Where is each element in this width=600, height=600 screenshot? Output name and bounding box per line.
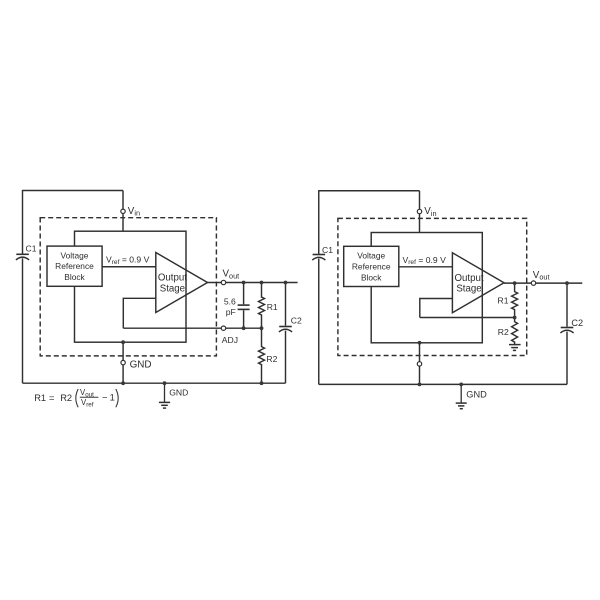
svg-text:Block: Block <box>361 272 382 282</box>
op-amp output stage A <box>156 253 208 313</box>
node Vin port circle right <box>417 209 421 213</box>
junction dots right circuit <box>418 281 569 386</box>
wire bottom rail <box>23 382 286 384</box>
resistor R1 <box>259 283 265 329</box>
svg-text:R1: R1 <box>498 296 509 306</box>
resistor R2 right <box>512 318 518 345</box>
svg-text:C2: C2 <box>571 318 583 328</box>
svg-text:−: − <box>102 392 107 402</box>
wire feedback tap line <box>420 317 515 319</box>
voltage reference block U-A <box>47 246 102 286</box>
svg-text:Vout: Vout <box>533 270 550 282</box>
svg-text:Stage: Stage <box>456 284 481 295</box>
resistor R1 right <box>512 283 518 317</box>
svg-text:Output: Output <box>454 273 483 284</box>
wire GND drop from block <box>122 342 124 383</box>
formula big paren left <box>76 389 78 407</box>
svg-text:Vref = 0.9 V: Vref = 0.9 V <box>403 255 447 266</box>
capacitor 5.6 pF <box>238 283 250 329</box>
dashed IC boundary box right <box>338 218 527 355</box>
wire Vin drop right <box>419 191 421 233</box>
wire Vref to output stage right <box>399 266 453 268</box>
ground symbol under R2 <box>509 345 521 351</box>
op-amp output stage B <box>452 253 504 313</box>
svg-text:GND: GND <box>169 388 188 398</box>
inner block box <box>75 231 187 342</box>
svg-text:Block: Block <box>64 272 85 282</box>
wire bottom rail right <box>319 383 567 385</box>
svg-text:Vref: Vref <box>81 398 94 408</box>
wire feedback lower input right <box>420 299 453 318</box>
wire GND drop from block right <box>419 343 421 385</box>
wire outer left vertical lower right <box>318 259 320 385</box>
wire Vref to output stage <box>102 266 156 268</box>
svg-text:GND: GND <box>466 390 487 400</box>
node Vin port circle <box>121 209 125 213</box>
svg-text:C1: C1 <box>26 244 37 254</box>
svg-text:Vout: Vout <box>223 269 240 281</box>
svg-text:Vref = 0.9 V: Vref = 0.9 V <box>106 255 150 266</box>
ground symbol bottom rail <box>159 383 170 408</box>
wire output line <box>208 282 298 284</box>
junction dots left circuit <box>121 281 287 386</box>
node ADJ port circle <box>221 326 225 330</box>
node GND port circle right <box>417 362 421 366</box>
formula R1 = R2 (Vout/Vref - 1) <box>34 388 115 408</box>
svg-text:ADJ: ADJ <box>222 335 238 345</box>
node Vout port circle right <box>531 281 535 285</box>
node GND port circle <box>121 360 125 364</box>
capacitor C1 <box>16 254 29 260</box>
svg-text:Reference: Reference <box>352 261 391 271</box>
wire outer left vertical upper right <box>318 190 320 254</box>
svg-text:C2: C2 <box>291 315 302 325</box>
wire outer left vertical upper <box>22 190 24 254</box>
inner block box right <box>371 233 482 343</box>
capacitor C2 right <box>560 283 573 384</box>
svg-text:Stage: Stage <box>160 283 185 294</box>
svg-text:R2: R2 <box>498 327 509 337</box>
formula big paren right <box>116 389 118 407</box>
svg-text:R1: R1 <box>34 393 46 403</box>
ground symbol bottom rail right <box>456 384 467 408</box>
resistor R2 <box>259 328 265 383</box>
svg-text:C1: C1 <box>322 245 333 255</box>
svg-text:Output: Output <box>158 273 187 284</box>
svg-text:1: 1 <box>110 392 115 402</box>
svg-text:Vout: Vout <box>80 388 94 398</box>
wire outer top rail left <box>23 190 124 192</box>
voltage reference block U-B <box>344 246 399 286</box>
svg-text:5.6: 5.6 <box>224 297 236 307</box>
svg-text:R2: R2 <box>266 354 277 364</box>
node Vout port circle <box>221 280 225 284</box>
wire output line right <box>504 282 582 284</box>
wire feedback lower input <box>123 298 156 328</box>
svg-text:Vin: Vin <box>424 206 436 218</box>
svg-text:pF: pF <box>226 307 236 317</box>
wire outer top rail right <box>319 190 420 192</box>
svg-text:=: = <box>49 393 54 403</box>
wire Vin drop <box>122 191 124 232</box>
dashed IC boundary box <box>40 218 216 356</box>
svg-text:Vin: Vin <box>128 206 140 218</box>
svg-text:Voltage: Voltage <box>61 251 89 261</box>
wire outer left vertical lower <box>22 258 24 383</box>
svg-text:R1: R1 <box>267 302 278 312</box>
capacitor C2 <box>279 283 292 384</box>
svg-text:R2: R2 <box>60 393 72 403</box>
capacitor C1 right <box>312 255 325 261</box>
wire ADJ line <box>123 327 261 329</box>
formula fraction bar <box>80 396 99 398</box>
svg-text:Voltage: Voltage <box>357 251 385 261</box>
svg-text:GND: GND <box>130 359 152 370</box>
svg-text:Reference: Reference <box>55 261 94 271</box>
